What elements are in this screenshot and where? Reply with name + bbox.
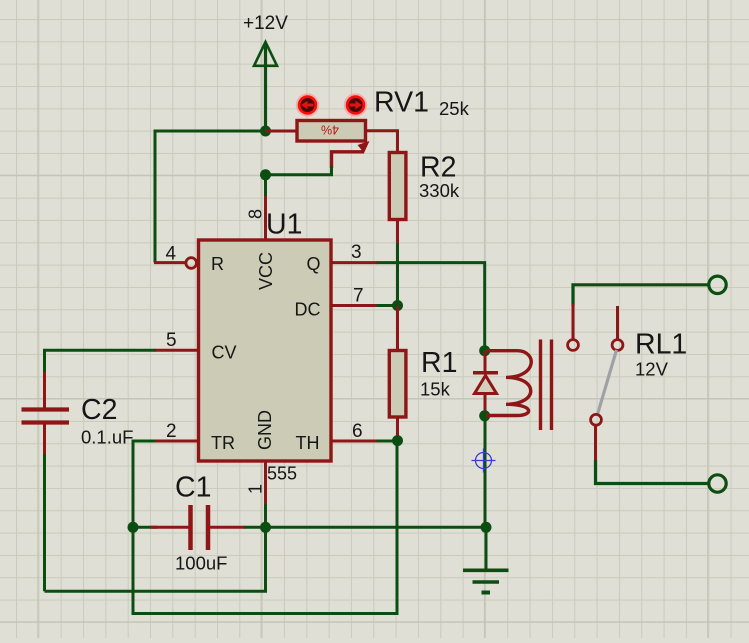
diode D1 cathode bar <box>473 371 498 375</box>
svg-text:4: 4 <box>166 244 177 265</box>
power symbol +12V arrow <box>254 42 277 66</box>
svg-text:5: 5 <box>166 330 177 351</box>
wire node to pin 8 <box>264 175 267 197</box>
svg-text:7: 7 <box>353 286 364 307</box>
wire pole to bottom terminal <box>596 460 710 484</box>
svg-text:R1: R1 <box>421 347 457 379</box>
junction node wiper <box>260 169 271 180</box>
relay contact pin right (NC stub) <box>616 306 619 339</box>
relay pole pin <box>594 425 597 461</box>
wire Q to relay coil <box>377 263 485 351</box>
svg-text:RV1: RV1 <box>374 87 429 119</box>
junction node TH <box>392 435 403 446</box>
svg-text:Q: Q <box>307 254 321 274</box>
svg-text:C2: C2 <box>81 394 117 426</box>
RV1 drag handle right <box>345 94 367 116</box>
RV1 wiper arm <box>358 141 370 153</box>
wire wiper to node <box>264 166 332 175</box>
wire coil bottom down to ground rail <box>484 416 487 528</box>
relay contact pin left <box>572 304 575 339</box>
svg-text:6: 6 <box>352 421 363 442</box>
wire pin1 node down and across to C2 <box>45 527 266 591</box>
svg-text:RL1: RL1 <box>635 329 687 361</box>
wire node to ground symbol <box>485 527 488 569</box>
wire relay NO contact to top terminal <box>573 285 709 306</box>
pin 1 stub <box>264 461 267 505</box>
svg-text:0.1.uF: 0.1.uF <box>81 427 133 448</box>
svg-text:R2: R2 <box>420 152 456 184</box>
wire CV to C2 <box>45 350 156 373</box>
relay contact circle right <box>612 340 623 351</box>
RV1 drag handle left <box>297 94 319 116</box>
svg-text:TR: TR <box>211 433 235 453</box>
relay origin marker <box>472 449 496 473</box>
wire top rail and left rail to pin 4 <box>155 131 266 263</box>
svg-text:12V: 12V <box>635 359 669 380</box>
wire TR down left rail <box>133 441 156 527</box>
svg-text:3: 3 <box>351 242 362 263</box>
wire pin1 to bottom node <box>264 504 267 527</box>
svg-text:TH: TH <box>296 433 320 453</box>
RV1 left pin <box>266 130 298 133</box>
relay contact circle left <box>568 340 579 351</box>
wire TR-TH bottom route <box>133 441 397 614</box>
junction node coil bottom <box>479 410 490 421</box>
pin 5 CV stub <box>155 349 199 352</box>
relay RL1 core <box>539 340 542 431</box>
svg-text:15k: 15k <box>420 379 451 400</box>
R2 bottom lead <box>396 220 399 245</box>
wire TH to node <box>377 440 398 443</box>
pin 4 stub with bubble <box>154 261 185 264</box>
svg-text:8: 8 <box>246 209 266 219</box>
svg-text:25k: 25k <box>439 98 470 119</box>
svg-text:GND: GND <box>255 410 275 450</box>
svg-text:+12V: +12V <box>243 13 288 34</box>
R1 bottom lead <box>396 417 399 441</box>
junction node pin1/C1 <box>260 522 271 533</box>
junction node ground <box>481 522 492 533</box>
ground symbol <box>463 570 509 592</box>
svg-text:U1: U1 <box>266 209 302 241</box>
resistor R2 body <box>389 153 406 220</box>
pin 3 Q stub <box>331 261 378 264</box>
pin 2 TR stub <box>155 440 199 443</box>
wire +12V down to top rail <box>264 44 267 131</box>
wire TR node to C1 left <box>133 526 157 529</box>
svg-text:C1: C1 <box>175 472 211 504</box>
capacitor C2 bottom lead <box>43 423 46 455</box>
wire R2 to DC node <box>396 243 399 306</box>
pin 8 stub <box>264 196 267 242</box>
svg-text:1: 1 <box>246 484 266 494</box>
wire C1 right to node <box>244 526 266 529</box>
diode D1 bottom lead <box>484 394 487 416</box>
junction node DC <box>392 300 403 311</box>
svg-text:555: 555 <box>267 464 297 484</box>
pin 6 TH stub <box>331 440 378 443</box>
RV1 right pin to R2 <box>366 131 398 153</box>
terminal bottom right <box>709 475 726 492</box>
svg-text:R: R <box>211 254 224 274</box>
svg-text:VCC: VCC <box>256 252 276 290</box>
junction node VCC/RV1 <box>260 126 271 137</box>
relay RL1 coil <box>486 351 531 416</box>
svg-text:100uF: 100uF <box>175 553 227 574</box>
relay movable arm <box>597 350 617 416</box>
capacitor C2 top lead <box>43 372 46 410</box>
R1 top lead <box>396 306 399 352</box>
resistor R1 body <box>389 351 406 418</box>
svg-text:CV: CV <box>212 343 237 363</box>
pin 7 DC stub <box>331 304 378 307</box>
diode D1 triangle <box>475 376 497 394</box>
capacitor C1 plates <box>188 505 193 550</box>
wire DC to node <box>377 304 398 307</box>
svg-text:4%: 4% <box>321 123 339 137</box>
capacitor C1 right lead <box>210 526 245 529</box>
wire bottom ground rail <box>266 526 487 529</box>
diode D1 top lead <box>484 351 487 372</box>
svg-text:330k: 330k <box>419 180 460 201</box>
wire C2 down <box>43 454 46 591</box>
svg-text:DC: DC <box>295 300 321 320</box>
potentiometer RV1 body <box>297 121 366 142</box>
junction node C1 left <box>128 522 139 533</box>
capacitor C2 plates <box>22 407 70 411</box>
IC U1 555 body <box>199 240 332 461</box>
junction node coil top <box>479 345 490 356</box>
terminal top right <box>709 276 726 293</box>
capacitor C1 left lead <box>150 526 189 529</box>
svg-text:2: 2 <box>166 421 177 442</box>
relay pole circle <box>591 414 602 425</box>
